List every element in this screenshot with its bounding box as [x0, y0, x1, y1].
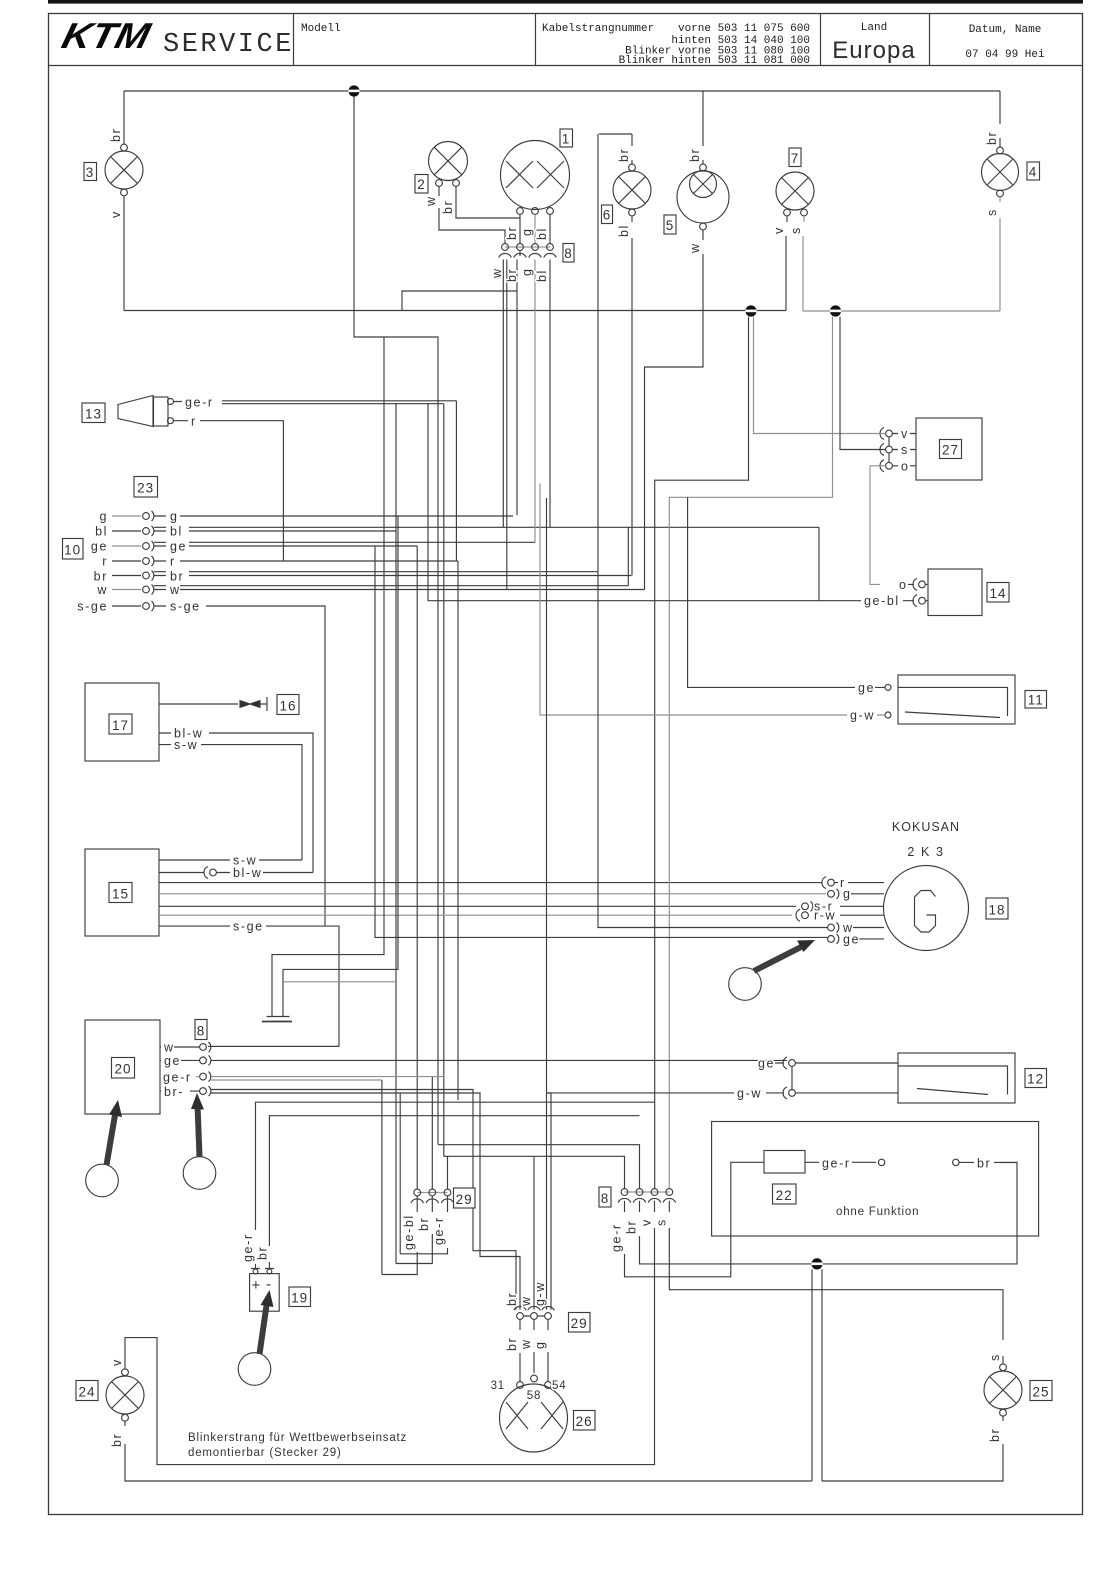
svg-text:4: 4: [1029, 165, 1038, 180]
connector bl-w box15: [204, 867, 216, 879]
component box 15 (CDI): [85, 849, 159, 936]
svg-text:br: br: [505, 1292, 519, 1306]
numbox 3: [84, 163, 97, 181]
svg-text:g-w: g-w: [533, 1281, 547, 1306]
svg-text:ge-r: ge-r: [185, 396, 214, 410]
svg-text:w: w: [519, 1295, 533, 1307]
svg-text:v: v: [640, 1218, 654, 1226]
numbox 6: [602, 205, 613, 224]
wire conn8a bl down: [549, 260, 551, 528]
svg-text:14: 14: [989, 586, 1006, 601]
svg-text:31: 31: [491, 1380, 505, 1392]
wire lamp2 w pin down: [439, 186, 505, 243]
numbox 17: [109, 714, 132, 734]
svg-text:w: w: [96, 583, 108, 597]
svg-text:6: 6: [603, 208, 612, 223]
wire g-w pair down to conn29b: [547, 1093, 552, 1310]
svg-text:29: 29: [456, 1192, 473, 1207]
connector ge-r box20: [200, 1072, 211, 1082]
svg-text:17: 17: [112, 718, 129, 733]
svg-text:ge: ge: [91, 540, 108, 554]
connector br- box20: [200, 1086, 211, 1096]
wire conn13 ge-r pair: [174, 401, 457, 404]
svg-text:r: r: [191, 415, 197, 429]
wire lamp7 s down: [803, 216, 804, 311]
svg-text:br: br: [625, 1220, 639, 1234]
wire lamp6 top: [599, 134, 632, 164]
svg-text:58: 58: [527, 1390, 541, 1402]
wire conn29b g down: [547, 1319, 549, 1381]
wire trunk bar right: [283, 516, 398, 1016]
wire headlight bl pin down: [549, 214, 551, 243]
wire ge box12: [775, 1063, 898, 1090]
svg-text:ge: ge: [843, 932, 860, 946]
wire o box27: [889, 453, 916, 466]
svg-text:26: 26: [576, 1414, 593, 1429]
svg-text:KTM: KTM: [58, 16, 156, 56]
svg-text:Blinkerstrang für Wettbewerbse: Blinkerstrang für Wettbewerbseinsatz: [188, 1432, 407, 1444]
wire box15 row r-w to generator: [159, 914, 792, 916]
connector ge box12: [783, 1057, 795, 1069]
numbox 5: [664, 215, 676, 234]
svg-text:v: v: [772, 226, 786, 234]
svg-text:w: w: [424, 195, 438, 207]
wire lamp25 stubs: [1002, 1356, 1004, 1421]
svg-text:r-w: r-w: [814, 909, 836, 923]
svg-text:2: 2: [417, 177, 426, 192]
spark plug connector 16: [240, 697, 267, 711]
numbox 29 lower: [569, 1313, 591, 1333]
svg-text:22: 22: [776, 1188, 793, 1203]
svg-text:r: r: [102, 555, 108, 569]
headlight 1: [501, 141, 570, 215]
numbox 1: [560, 129, 573, 147]
svg-text:s: s: [901, 443, 909, 457]
connector 8 top (4 poles): [499, 244, 557, 258]
svg-text:s: s: [985, 208, 999, 216]
svg-text:7: 7: [791, 151, 800, 166]
wire br- box20 pair: [160, 1090, 520, 1310]
svg-text:8: 8: [564, 246, 573, 261]
lamp 25 (rear right indicator): [984, 1364, 1022, 1416]
connector 29 upper (3 poles): [411, 1189, 454, 1203]
switch box 11: [885, 675, 1015, 724]
connector 13 (horn): [118, 396, 174, 427]
svg-text:-: -: [266, 1276, 273, 1293]
pin circle br box22: [953, 1159, 959, 1165]
splice dot s bus: [830, 305, 841, 316]
svg-text:10: 10: [64, 543, 81, 558]
svg-text:ge-r: ge-r: [610, 1223, 624, 1252]
numbox 19: [289, 1287, 311, 1307]
connector 10 row r: [102, 555, 458, 569]
wire conn29a pin2 below U: [396, 1196, 432, 1264]
connector 8 bottom (4 poles): [618, 1189, 675, 1203]
wire conn8b br below: [640, 1163, 1018, 1264]
wire lamp6 bl down: [631, 216, 633, 576]
wire lamp3 top to bus: [123, 91, 125, 144]
svg-text:18: 18: [988, 903, 1005, 918]
component box 27: [916, 418, 982, 480]
wire o box14: [908, 583, 928, 585]
connector 10 row br: [94, 570, 632, 584]
svg-text:w: w: [490, 267, 504, 279]
wire trunk from top splice: [354, 97, 438, 1145]
connector o box27: [880, 460, 892, 472]
svg-text:w: w: [688, 242, 702, 254]
numbox 4: [1027, 162, 1040, 180]
connector ge-bl box14: [913, 595, 925, 607]
balloon callout generator: [729, 968, 762, 1001]
svg-text:bl: bl: [170, 525, 183, 539]
pin circle ge-r box22: [878, 1159, 884, 1165]
svg-text:s-ge: s-ge: [233, 920, 264, 934]
svg-text:ge-r: ge-r: [163, 1071, 192, 1085]
wire v branch down: [655, 317, 749, 1189]
svg-text:54: 54: [552, 1380, 566, 1392]
numbox 8 bottom: [599, 1187, 611, 1207]
svg-text:s: s: [789, 226, 803, 234]
numbox 27: [940, 440, 962, 459]
connector 10 row g: [99, 510, 513, 524]
wire br pair down from splice: [812, 1269, 822, 1481]
wire box27 o down to box14: [870, 466, 886, 585]
component box 17: [85, 683, 159, 761]
wire conn8b v below: [125, 1201, 655, 1465]
numbox 2: [415, 175, 428, 194]
wire w down to conn29b: [533, 1157, 535, 1310]
connector r-w generator: [796, 909, 884, 923]
wire trunk ge-b down to conn29 pin1: [416, 546, 418, 1189]
numbox 25: [1030, 1381, 1052, 1401]
svg-text:ge: ge: [758, 1057, 775, 1071]
wire v box27: [892, 433, 916, 435]
switch box 12: [898, 1053, 1015, 1103]
svg-text:Modell: Modell: [301, 23, 341, 35]
numbox 26: [574, 1411, 596, 1431]
svg-text:8: 8: [601, 1191, 610, 1206]
wire battery minus up: [269, 1116, 639, 1269]
svg-text:g: g: [99, 510, 108, 524]
wire trunk bl-b down to conn29 pin2: [396, 404, 432, 1264]
title block top black bar: [48, 0, 1083, 4]
lamp 4 (front right indicator): [982, 147, 1019, 197]
svg-text:2 K 3: 2 K 3: [907, 845, 944, 859]
svg-text:29: 29: [571, 1316, 588, 1331]
svg-text:ohne Funktion: ohne Funktion: [836, 1206, 919, 1218]
numbox 15: [109, 883, 132, 903]
wire ge-r b down to r row: [455, 401, 457, 561]
numbox 20: [112, 1058, 135, 1079]
arrow to box20: [107, 1112, 116, 1165]
numbox 29 upper: [454, 1188, 476, 1208]
wire br to lamp25: [822, 1444, 1003, 1481]
svg-text:g: g: [520, 267, 534, 276]
splice dot br bus: [811, 1258, 822, 1269]
wire box17 to spark plug: [159, 703, 238, 705]
wire lamp5 w down jog: [645, 230, 704, 590]
wire conn8a w down: [402, 260, 507, 590]
wire box15 row g to generator: [159, 893, 826, 895]
svg-text:Kabelstrangnummer: Kabelstrangnummer: [542, 23, 654, 35]
wire ge box20 long to box12: [160, 1059, 787, 1061]
wire conn8a g down: [534, 260, 536, 543]
lamp 2 (pilot lamp): [429, 142, 468, 187]
svg-text:11: 11: [1028, 693, 1044, 708]
wire U loop bar H981: [283, 981, 396, 983]
svg-text:bl: bl: [617, 224, 631, 237]
lamp 7 (twin pilot): [776, 172, 814, 216]
wire g-w box12: [547, 498, 899, 1093]
connector g-w box12: [783, 1087, 795, 1099]
svg-text:g: g: [170, 510, 179, 524]
wire box17 bl-w: [159, 733, 313, 873]
lamp 24 (rear left indicator): [106, 1369, 144, 1421]
wire trunk bar left: [272, 337, 384, 1016]
svg-text:s-w: s-w: [174, 738, 198, 752]
wire s feed from splice: [840, 317, 886, 450]
wire box15 bl-w: [159, 872, 313, 874]
svg-text:15: 15: [112, 887, 129, 902]
svg-text:bl: bl: [95, 525, 108, 539]
svg-text:+: +: [252, 1277, 262, 1294]
wire ge box11: [688, 497, 885, 687]
svg-text:o: o: [901, 459, 910, 473]
svg-text:27: 27: [942, 443, 959, 458]
wire conn29b w down: [533, 1319, 535, 1373]
numbox 11: [1025, 691, 1047, 709]
svg-text:br: br: [688, 148, 702, 162]
svg-text:3: 3: [86, 165, 95, 180]
wire conn29b br down: [519, 1319, 521, 1381]
svg-text:s-ge: s-ge: [77, 600, 108, 614]
svg-text:Datum, Name: Datum, Name: [969, 24, 1042, 36]
wire lamp7 v down: [786, 216, 787, 311]
wire lamp4 top: [999, 91, 1001, 147]
svg-text:v: v: [901, 427, 909, 441]
title block divider Kabelstrangnummer: [535, 14, 537, 66]
wire U loop legs: [382, 1080, 400, 1275]
svg-text:br: br: [441, 200, 455, 214]
connector w box20: [200, 1042, 211, 1052]
numbox 23: [134, 477, 158, 498]
svg-text:g-w: g-w: [737, 1086, 762, 1100]
numbox 22: [773, 1184, 797, 1204]
title block divider Modell: [293, 14, 295, 66]
wire conn29a pin3 below U: [400, 1196, 447, 1254]
svg-text:13: 13: [85, 407, 102, 422]
svg-text:br: br: [170, 570, 184, 584]
tail light 26: [500, 1375, 568, 1452]
svg-text:w: w: [163, 1041, 175, 1055]
wire box15 row r to generator: [159, 882, 822, 884]
svg-text:25: 25: [1032, 1385, 1049, 1400]
connector o box14: [913, 578, 925, 590]
svg-text:24: 24: [78, 1385, 95, 1400]
wire br to lamp24: [125, 1444, 812, 1481]
numbox 13: [82, 403, 105, 423]
wire v feed from splice: [754, 317, 886, 434]
wire trunk r down: [457, 561, 459, 1100]
svg-text:s-ge: s-ge: [170, 600, 201, 614]
svg-text:br: br: [617, 148, 631, 162]
wire conn13 r: [174, 421, 284, 561]
wire s branch down: [669, 317, 832, 1189]
junction bar: [262, 1021, 292, 1023]
numbox 18: [986, 898, 1008, 919]
arrow to battery: [260, 1302, 268, 1354]
top supply bus wire: [124, 90, 1000, 92]
KTM logo: [58, 16, 156, 56]
splice dot top bus: [348, 85, 359, 96]
svg-text:br: br: [985, 131, 999, 145]
svg-text:v: v: [110, 1358, 124, 1366]
svg-text:br: br: [94, 570, 108, 584]
svg-text:1: 1: [562, 132, 571, 147]
numbox 10: [63, 539, 84, 560]
component box 20: [85, 1020, 160, 1114]
svg-text:19: 19: [291, 1291, 308, 1306]
svg-text:12: 12: [1027, 1072, 1044, 1087]
wire conn8a br down: [505, 250, 520, 515]
svg-text:w: w: [169, 583, 181, 597]
svg-text:ge-bl: ge-bl: [864, 594, 900, 608]
connector ge box20: [200, 1055, 211, 1065]
svg-text:5: 5: [666, 218, 675, 233]
wire br box22: [959, 1161, 1017, 1163]
svg-text:br: br: [505, 1337, 519, 1351]
svg-text:ge-r: ge-r: [432, 1216, 446, 1245]
svg-text:o: o: [899, 578, 908, 592]
wire headlight br pin down: [519, 214, 521, 243]
numbox 8 mid: [195, 1020, 207, 1040]
svg-text:16: 16: [279, 699, 296, 714]
s bus wire right: [803, 310, 1000, 312]
title block divider Datum: [929, 14, 931, 66]
wire ge-r box22: [805, 1161, 876, 1163]
wire s box27: [889, 437, 916, 450]
numbox 24: [76, 1381, 98, 1401]
svg-text:23: 23: [137, 481, 154, 496]
numbox 8 top: [563, 244, 574, 263]
svg-text:07 04 99 Hei: 07 04 99 Hei: [965, 49, 1045, 61]
wire lamp4 s down: [999, 197, 1001, 311]
svg-text:s: s: [655, 1218, 669, 1226]
svg-text:8: 8: [197, 1024, 206, 1039]
connector 10 row w: [96, 527, 644, 597]
connector s box27: [880, 444, 892, 456]
svg-text:bl: bl: [535, 227, 549, 240]
arrow to generator ge: [754, 946, 804, 972]
lamp 3 (front left turn indicator): [105, 144, 143, 196]
wire lamp3 bottom down: [123, 196, 125, 311]
wire headlight g pin down: [534, 214, 536, 243]
connector 10 row ge: [91, 540, 535, 554]
wire lamp24 br stub: [124, 1421, 126, 1426]
wire box15 s-w: [159, 859, 302, 861]
svg-text:ge: ge: [858, 681, 875, 695]
svg-text:br: br: [417, 1217, 431, 1231]
connector 10 row s-ge: [77, 600, 325, 927]
svg-text:br: br: [505, 226, 519, 240]
connector 29 lower (3 poles): [514, 1306, 555, 1319]
connector v box27: [880, 428, 892, 440]
svg-text:br: br: [505, 268, 519, 282]
svg-text:vorne 503 11 075 600: vorne 503 11 075 600: [678, 23, 810, 35]
svg-text:Land: Land: [861, 22, 887, 34]
svg-text:Blinker hinten 503 11 081 000: Blinker hinten 503 11 081 000: [619, 55, 810, 67]
wire ge-bl box14: [428, 404, 928, 601]
numbox 16: [277, 695, 299, 715]
svg-text:ge-r: ge-r: [241, 1233, 255, 1262]
svg-text:g-w: g-w: [850, 709, 875, 723]
numbox 14: [987, 583, 1009, 603]
title block divider Land: [820, 14, 822, 66]
svg-text:br: br: [109, 128, 123, 142]
wire ge generator feed: [375, 546, 828, 937]
svg-text:br: br: [110, 1433, 124, 1447]
svg-text:SERVICE: SERVICE: [163, 30, 294, 60]
wire conn8b s below: [669, 1201, 1003, 1340]
svg-text:Europa: Europa: [832, 37, 915, 64]
wire g-w box11: [540, 484, 885, 716]
connector g generator: [828, 887, 884, 901]
balloon br- connector: [183, 1157, 216, 1190]
battery 19: [250, 1269, 280, 1312]
connector 10 row bl: [95, 525, 819, 602]
svg-text:s: s: [988, 1353, 1002, 1361]
svg-text:br: br: [977, 1157, 991, 1171]
arrow to br- connector: [198, 1105, 200, 1157]
svg-text:g: g: [843, 887, 852, 901]
connector ge generator: [828, 932, 884, 946]
svg-text:bl: bl: [535, 269, 549, 282]
component box 14: [928, 569, 982, 616]
lamp 6 (tail pilot): [613, 164, 651, 216]
svg-text:ge-bl: ge-bl: [402, 1214, 416, 1250]
component box 22 (flasher relay, no function): [712, 1122, 1039, 1237]
lamp 5 (headlamp small): [677, 164, 729, 230]
svg-text:v: v: [109, 210, 123, 218]
svg-text:r: r: [170, 555, 176, 569]
wire lamp2 br pin down: [456, 186, 520, 218]
svg-text:g: g: [533, 1340, 547, 1349]
svg-text:w: w: [519, 1338, 533, 1350]
connector r generator: [822, 876, 884, 890]
connector s-r generator: [802, 900, 884, 914]
balloon battery: [238, 1353, 271, 1386]
title block header row outline: [49, 65, 1083, 67]
wire lamp5 br top: [702, 91, 704, 164]
svg-text:demontierbar (Stecker 29): demontierbar (Stecker 29): [188, 1447, 342, 1459]
svg-text:KOKUSAN: KOKUSAN: [892, 820, 960, 834]
svg-text:bl-w: bl-w: [233, 866, 262, 880]
generator 18 KOKUSAN: [884, 866, 969, 951]
wire w generator feed: [598, 134, 828, 928]
wire box15 s-ge: [159, 926, 339, 1046]
svg-text:br-: br-: [164, 1085, 184, 1099]
numbox 7: [789, 148, 801, 167]
fuse box22: [764, 1151, 805, 1174]
svg-text:ge: ge: [164, 1054, 181, 1068]
svg-text:g: g: [520, 227, 534, 236]
svg-text:br: br: [988, 1428, 1002, 1442]
wire ge-r a down trunk: [443, 404, 445, 1157]
wire battery plus up: [256, 1102, 655, 1268]
numbox 12: [1025, 1069, 1047, 1088]
wire w box20: [160, 1045, 339, 1048]
wire box17 s-w: [159, 745, 302, 860]
